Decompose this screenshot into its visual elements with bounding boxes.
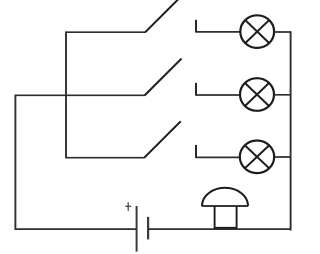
lamp L2 [240,78,274,111]
bell (dome) [202,188,248,229]
wire: right vertical bus [290,31,292,230]
wire: left inner vertical (row1 corner down to row3) [65,31,67,157]
wire: left outer vertical [14,95,16,230]
wire: row1 contact to lamp L1 [195,31,240,33]
battery B1 plus label [125,202,131,211]
switch S2 (open blade + fixed contact) [145,59,197,96]
wire: row2 left horizontal [15,94,145,96]
wire: row2 contact to lamp L2 [195,94,240,96]
switch S1 (open blade + fixed contact) [145,0,196,32]
lamp L3 [240,141,274,174]
wire: bottom right horizontal from battery to right bus [148,228,291,230]
battery B1 positive long plate [136,206,138,252]
wire: row1 left horizontal [66,31,146,33]
wire: row3 left horizontal [65,157,144,159]
lamp L1 [240,15,274,48]
battery B1 negative short plate [147,217,149,240]
switch S3 (open blade + fixed contact) [144,121,196,158]
wire: bottom left horizontal to battery [15,228,137,230]
wire: lamp L3 to right bus [275,156,291,158]
wire: row3 contact to lamp L3 [195,156,240,158]
wire: lamp L1 to right bus [275,31,291,33]
wire: lamp L2 to right bus [275,94,291,96]
